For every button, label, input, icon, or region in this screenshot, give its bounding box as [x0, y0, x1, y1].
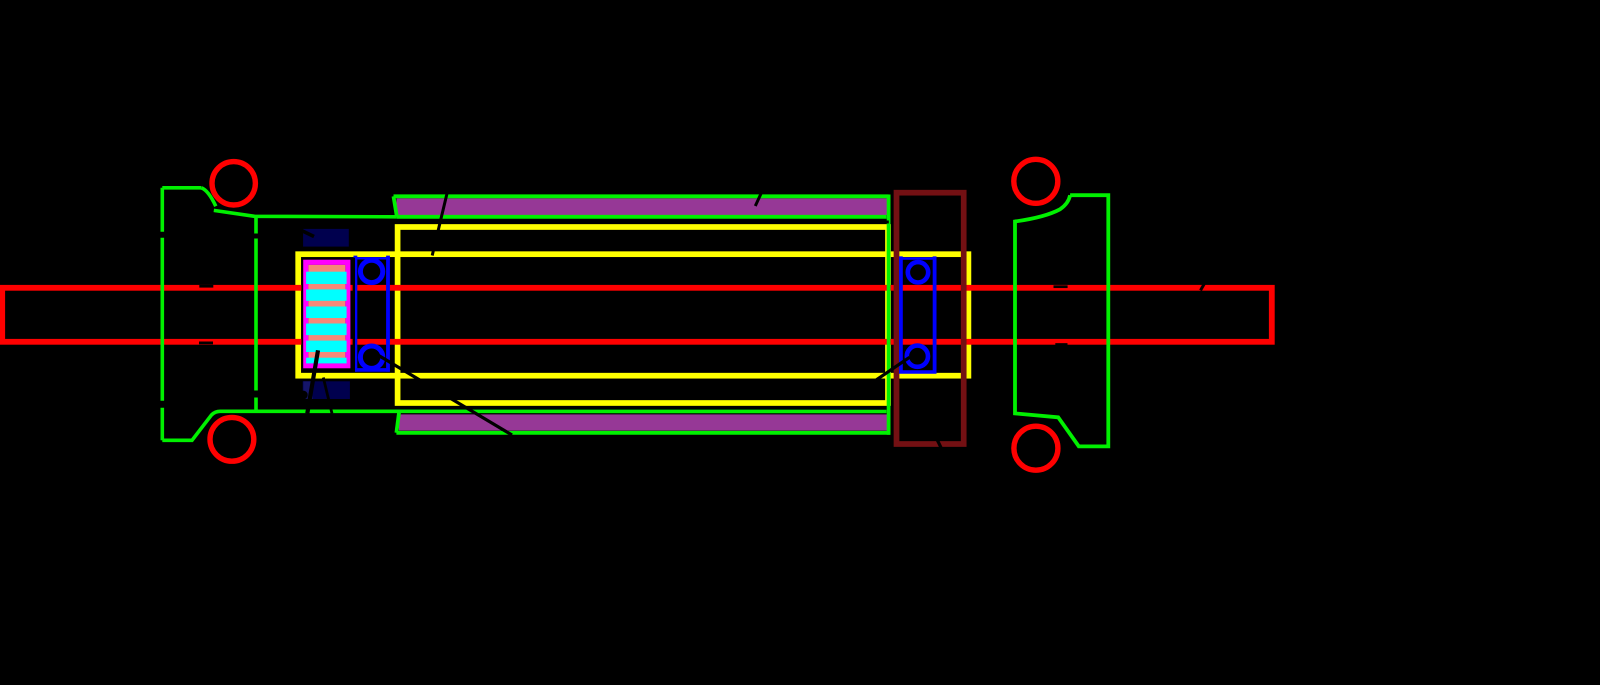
bracket flange face (dashed vertical): [161, 188, 165, 440]
rear bearing (blue): [899, 256, 937, 373]
housing bottom-left chamfer: [396, 410, 399, 433]
bracket shoulder lower line: [214, 210, 397, 216]
housing top-left chamfer: [394, 196, 397, 217]
rear bearing box sides: [901, 256, 935, 373]
front bearing upper ball: [360, 260, 382, 282]
leader through bottom seal block: [323, 378, 332, 414]
front bearing lower ball: [360, 346, 382, 368]
right end-bracket (green): [1015, 195, 1108, 446]
housing inner line under top lamination: [397, 215, 887, 219]
spring pack fill (salmon): [308, 265, 345, 363]
stator lamination bottom bar (purple): [399, 414, 888, 430]
leader lines (black): [199, 193, 1204, 448]
spring washer 3 (cyan): [306, 307, 347, 319]
rear bearing upper ball: [908, 262, 928, 282]
housing top edge: [394, 194, 889, 198]
motor housing outline (green): [394, 195, 891, 435]
seal block bottom lighter segment: [303, 381, 312, 399]
front bearing box bottom edge: [354, 368, 390, 372]
leader to stator laminations: [432, 194, 447, 256]
rear bearing box bottom edge: [899, 370, 937, 374]
stator lamination top bar (purple): [397, 198, 889, 215]
spring washer 5 (cyan): [306, 341, 347, 352]
bracket foot and lower inner line: [162, 411, 886, 440]
shaft sleeve / bearing seat box (yellow): [298, 254, 968, 376]
bore hidden edge left top: [199, 285, 213, 288]
bolt circle bottom-left (red): [210, 417, 254, 461]
rotor core outer box (yellow): [398, 227, 888, 403]
spring pack outline (black): [303, 259, 354, 371]
front bearing box sides: [355, 256, 388, 372]
front bearing (blue): [354, 256, 390, 372]
rear bearing box top edge: [899, 257, 937, 259]
leader tick on bearing cap bottom: [937, 440, 941, 448]
winding edge notch on housing right: [883, 221, 889, 224]
leader into top seal block: [301, 230, 315, 237]
housing bottom edge: [396, 431, 890, 435]
leader through spring pack: [307, 350, 318, 413]
spring washer 6 (cyan): [306, 358, 347, 364]
shaft (red): [2, 288, 1272, 342]
spring pack body (magenta): [306, 262, 348, 365]
leader from front bearing to housing foot: [377, 355, 512, 436]
bolt circle bottom-right (red): [1014, 426, 1058, 470]
bore hidden edge left bottom: [199, 341, 213, 344]
right bracket outline: [1015, 195, 1108, 446]
spring washer 2 (cyan): [306, 289, 347, 300]
bore hidden edge right bottom: [1055, 343, 1067, 346]
seal block bottom notch: [299, 391, 308, 400]
bore hidden edge right top: [1054, 285, 1068, 288]
spring washer 4 (cyan): [306, 324, 347, 336]
bracket hidden vertical (dashed): [254, 217, 258, 412]
housing right edge: [887, 195, 891, 435]
bracket top edge: [162, 186, 201, 190]
leader tick on shaft right: [1201, 284, 1205, 291]
spring washer 1 (cyan): [306, 272, 347, 284]
bolt circle top-right (red): [1014, 159, 1058, 203]
seal block top (navy): [303, 229, 349, 247]
leader tick on top lamination: [755, 193, 761, 207]
rear bearing cap (maroon): [897, 193, 964, 444]
seal block bottom (navy): [303, 381, 350, 399]
bracket shoulder S-curve: [201, 188, 216, 206]
left end-bracket (green): [162, 188, 886, 440]
leader from rear bearing to sleeve: [876, 357, 909, 380]
rear bearing lower ball: [907, 346, 928, 367]
bolt circle top-left (red): [212, 162, 255, 205]
front bearing box top edge: [354, 257, 390, 259]
